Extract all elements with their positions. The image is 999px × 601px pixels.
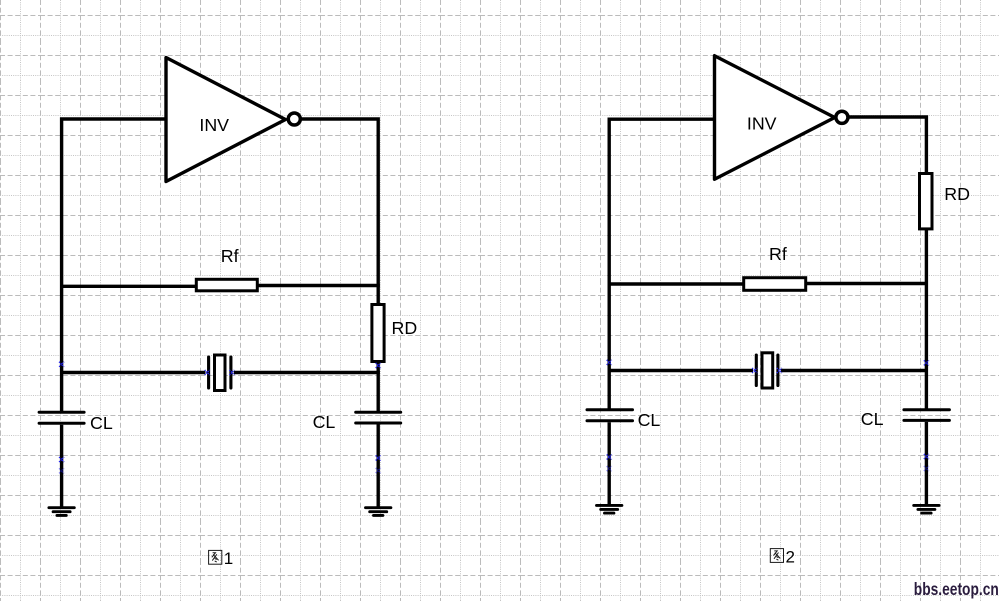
svg-text:RD: RD <box>392 318 418 338</box>
wire input+left rail figure1 <box>62 119 166 413</box>
node marker left rail figure2 <box>607 360 612 365</box>
node marker crystal right figure1 <box>229 370 234 375</box>
wire left cap to ground figure2 <box>608 422 611 505</box>
capacitor CL left figure1 <box>39 412 84 423</box>
node marker left drop b figure2 <box>607 466 612 471</box>
node marker right drop a figure1 <box>376 456 381 461</box>
svg-text:CL: CL <box>313 412 336 432</box>
node marker crystal left figure2 <box>752 368 757 373</box>
node marker left drop a figure1 <box>59 457 64 462</box>
wire crystal row left figure2 <box>608 369 753 372</box>
node marker left rail figure1 <box>59 362 64 367</box>
op-amp U1 inverter INV triangle <box>166 58 286 182</box>
node marker right rail figure2 <box>924 360 929 365</box>
capacitor CL right figure1 <box>356 412 401 423</box>
node marker crystal right figure2 <box>777 368 782 373</box>
caption figure 1 <box>209 550 222 564</box>
op-amp U2 inverter INV triangle <box>715 56 835 180</box>
node marker left drop b figure1 <box>59 468 64 473</box>
svg-text:Rf: Rf <box>221 246 239 266</box>
svg-text:INV: INV <box>747 114 777 134</box>
wire input+left rail figure2 <box>609 119 714 410</box>
wire Rf row left figure1 <box>60 285 196 288</box>
svg-text:RD: RD <box>944 184 970 204</box>
node inverter output bubble figure2 <box>836 111 848 123</box>
wire right cap to ground figure1 <box>377 425 380 508</box>
wire Rf row right figure2 <box>806 282 928 285</box>
capacitor CL left figure2 <box>587 410 633 421</box>
crystal Y1 right plate <box>229 357 232 388</box>
svg-text:CL: CL <box>861 409 884 429</box>
crystal Y2 body figure2 <box>762 353 773 388</box>
svg-text:1: 1 <box>224 549 233 568</box>
resistor Rf figure1 <box>196 279 257 291</box>
wire output to right rail figure1 <box>301 119 378 304</box>
svg-text:CL: CL <box>90 413 113 433</box>
node marker crystal left figure1 <box>205 370 210 375</box>
ground left figure1 <box>49 508 74 516</box>
node marker right drop b figure2 <box>924 466 929 471</box>
wire crystal row right figure2 <box>781 369 928 372</box>
node marker right drop b figure1 <box>376 468 381 473</box>
wire Rf row left figure2 <box>608 282 744 285</box>
ground right figure1 <box>366 508 391 516</box>
wire below RD figure1 <box>377 362 380 413</box>
svg-text:Rf: Rf <box>769 244 787 264</box>
node inverter output bubble <box>288 113 300 125</box>
resistor Rf figure2 <box>744 278 806 291</box>
node marker right rail figure1 <box>376 363 381 368</box>
svg-text:CL: CL <box>638 410 661 430</box>
caption figure 2 <box>770 549 783 563</box>
crystal Y2 left plate <box>755 355 758 386</box>
wire left cap to ground figure1 <box>60 425 63 508</box>
crystal Y1 body figure1 <box>215 355 226 391</box>
wire crystal row right figure1 <box>234 371 380 374</box>
svg-text:bbs.eetop.cn: bbs.eetop.cn <box>914 579 999 599</box>
wire crystal row left figure1 <box>60 371 206 374</box>
node marker left drop a figure2 <box>607 455 612 460</box>
ground left figure2 <box>597 505 622 513</box>
crystal Y1 left plate <box>207 357 210 388</box>
ground right figure2 <box>914 505 939 513</box>
wire right cap to ground figure2 <box>925 422 928 505</box>
svg-text:2: 2 <box>786 547 795 566</box>
capacitor CL right figure2 <box>904 410 950 421</box>
resistor RD figure1 <box>372 305 384 362</box>
node marker right drop a figure2 <box>924 454 929 459</box>
svg-text:INV: INV <box>199 115 229 135</box>
crystal Y2 right plate <box>776 355 779 386</box>
wire output to right rail figure2 <box>848 117 926 173</box>
wire Rf row right figure1 <box>258 284 380 287</box>
resistor RD figure2 <box>920 174 933 229</box>
wire below RD figure2 <box>925 229 928 410</box>
